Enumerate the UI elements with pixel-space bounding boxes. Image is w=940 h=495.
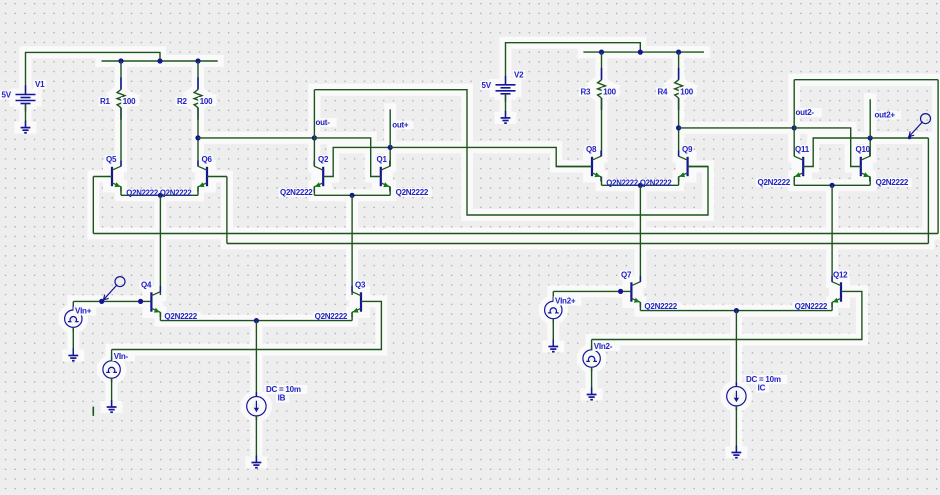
wire node out1- from R2 [198, 137, 314, 139]
svg-text:Q8: Q8 [586, 145, 597, 154]
wire latch1 emitter bus [314, 194, 390, 196]
svg-text:R2: R2 [177, 97, 188, 106]
wire latch2 top link [794, 79, 938, 81]
wire R2 to Q6 collector [197, 108, 199, 167]
wire Q11 emitter drop [793, 177, 795, 186]
svg-text:Q2N2222: Q2N2222 [644, 302, 677, 311]
wire Q1 collector [389, 147, 391, 166]
wire out1+ to Q8 base [390, 147, 592, 166]
wire IB to ground [255, 416, 257, 463]
junction rail-R1 [118, 58, 123, 63]
wire feedback line A [93, 233, 938, 235]
junction R2-out1 node [195, 135, 200, 140]
wire Q10 emitter drop [869, 177, 871, 186]
wire VIn2- top lead [591, 340, 593, 350]
junction rail-R3 [599, 50, 604, 55]
wire Q1 base to out1- [314, 138, 380, 177]
wire latch2 emitter bus [794, 184, 870, 186]
wire latch1 bus to Q3 collector [351, 195, 353, 292]
svg-text:100: 100 [680, 87, 693, 96]
wire node out2- from R4 [679, 127, 795, 129]
svg-text:100: 100 [123, 97, 136, 106]
ground 0 below VIn+ [68, 349, 78, 361]
junction Q4 base node [138, 299, 143, 304]
svg-text:Q2N2222: Q2N2222 [758, 178, 791, 187]
wire Q1 emitter drop [389, 187, 391, 196]
svg-text:Q2N2222 Q2N2222: Q2N2222 Q2N2222 [606, 179, 672, 188]
ground 0 below IC [732, 446, 742, 458]
svg-text:V2: V2 [514, 70, 524, 79]
transistor Q6 [198, 161, 207, 192]
transistor Q10 [861, 151, 870, 182]
transistor Q12 [832, 276, 841, 307]
wire Q8 emitter drop [601, 177, 603, 186]
svg-text:Q2N2222: Q2N2222 [876, 178, 909, 187]
svg-text:out2+: out2+ [875, 111, 896, 120]
svg-text:Q7: Q7 [621, 271, 632, 280]
wire R1 to Q5 collector [120, 108, 122, 167]
resistor R2 [194, 78, 202, 120]
wire Q3 emitter drop [351, 312, 353, 320]
svg-text:out-: out- [316, 118, 331, 127]
wire right supply rail [583, 51, 704, 53]
wire V1 to ground [25, 104, 27, 128]
svg-text:R1: R1 [100, 97, 111, 106]
resistor R3 [598, 68, 606, 110]
wire Q9 base lead [688, 166, 708, 168]
wire VIn2- to Q12 base [592, 291, 862, 339]
svg-text:Q2N2222 Q2N2222: Q2N2222 Q2N2222 [126, 189, 192, 198]
wire Q2 emitter drop [313, 187, 315, 196]
svg-text:Q2N2222: Q2N2222 [280, 188, 313, 197]
svg-text:Q2N2222: Q2N2222 [315, 312, 348, 321]
wire Q11 collector [793, 128, 795, 157]
source VIn2- [583, 346, 600, 372]
wire IC to ground [735, 406, 737, 453]
source VIn- [103, 357, 120, 383]
wire out2- stub [793, 80, 795, 128]
svg-text:Q12: Q12 [833, 271, 848, 280]
svg-text:IB: IB [278, 394, 286, 403]
transistor Q1 [381, 161, 390, 192]
wire VIn2+ to Q7 base [553, 290, 631, 292]
wire VIn2+ top lead [552, 291, 554, 301]
svg-text:R4: R4 [658, 87, 669, 96]
wire Q5-Q6 emitter bus [121, 194, 198, 196]
probe marker 2 [909, 114, 931, 137]
svg-text:VIn2+: VIn2+ [555, 297, 576, 306]
wire feedback A riser [937, 80, 939, 234]
wire VIn2+ bottom lead [552, 319, 554, 347]
label R2 value [198, 97, 216, 106]
resistor R4 [675, 68, 683, 110]
transistor Q3 [352, 286, 361, 317]
junction rail-R2 [195, 58, 200, 63]
junction out1- node [312, 135, 317, 140]
svg-text:Q9: Q9 [682, 145, 693, 154]
wire VIn2- bottom lead [591, 367, 593, 394]
junction emitter bus 1 [158, 193, 163, 198]
wire Q3 collector [351, 292, 353, 295]
svg-text:Q4: Q4 [141, 281, 152, 290]
wire VIn- to Q3 base [112, 301, 382, 349]
junction rail-feed [157, 58, 162, 63]
wire latch2 bus to Q12 collector [831, 185, 833, 282]
label R3 value [602, 87, 620, 96]
svg-text:Q2N2222: Q2N2222 [164, 312, 197, 321]
junction out1+ node [388, 145, 393, 150]
svg-text:Q10: Q10 [856, 145, 871, 154]
wire Q12 emitter drop [831, 302, 833, 310]
wire R4 upper lead [678, 52, 680, 80]
transistor Q5 [112, 161, 121, 192]
wire VIn- bottom lead [111, 378, 113, 407]
wire Q5 base feedback drop [92, 177, 94, 234]
wire latch1 top link [314, 90, 708, 215]
label VIn2- [592, 342, 620, 351]
svg-text:VIn2-: VIn2- [594, 342, 613, 351]
wire Q7 emitter drop [639, 302, 641, 310]
junction out2- node [792, 125, 797, 130]
wire feedback B riser [927, 138, 929, 244]
wire VIn+ to Q4 base [73, 300, 151, 302]
svg-text:5V: 5V [2, 91, 12, 100]
svg-text:Q2: Q2 [318, 155, 329, 164]
wire Q2 base to out1+ [323, 147, 390, 176]
wire V2 to rail [506, 43, 641, 85]
svg-text:100: 100 [603, 87, 616, 96]
junction rail-R4 [676, 50, 681, 55]
junction bus2-IB [254, 318, 259, 323]
ground 0 below V1 [21, 121, 31, 133]
wire Q11 base to out2+ [803, 138, 870, 167]
svg-text:Q2N2222: Q2N2222 [795, 302, 828, 311]
current source IC [727, 382, 746, 410]
svg-text:V1: V1 [35, 80, 45, 89]
source VIn+ [65, 306, 82, 332]
battery V2 [496, 76, 516, 102]
label VIn- [112, 352, 135, 361]
svg-text:IC: IC [758, 384, 766, 393]
wire R3 to Q8 collector [601, 98, 603, 157]
wire R1 upper lead [120, 61, 122, 90]
wire VIn- top lead [111, 350, 113, 361]
label R4 value [679, 87, 697, 96]
wire out1- stub [313, 90, 315, 138]
transistor Q11 [794, 151, 803, 182]
wire Q10 collector [869, 138, 871, 157]
wire Q5 emitter drop [120, 187, 122, 196]
wire feedback line B [227, 243, 929, 245]
svg-text:VIn-: VIn- [114, 352, 129, 361]
svg-text:Q2N2222: Q2N2222 [396, 188, 429, 197]
wire out2+ stub [869, 99, 871, 138]
ground 0 below IB [252, 456, 262, 468]
ground 0 below VIn2- [587, 388, 597, 400]
resistor R1 [117, 78, 125, 120]
battery V1 [16, 86, 36, 112]
wire bus1 to Q4 collector [159, 195, 161, 292]
junction latch1 bus [350, 193, 355, 198]
junction latch2 bus [830, 183, 835, 188]
wire Q10 base to out2- [794, 128, 861, 167]
svg-text:5V: 5V [482, 81, 492, 90]
wire Q2 collector [313, 138, 315, 167]
wire IB feed [255, 321, 257, 397]
junction out2+ node [868, 135, 873, 140]
wire V2 to ground [505, 94, 507, 118]
wire R4 to Q9 collector [678, 98, 680, 157]
text cursor [92, 407, 94, 416]
wire R2 upper lead [197, 61, 199, 90]
transistor Q4 [151, 286, 160, 317]
junction bus4-IC [734, 308, 739, 313]
wire Q5 base [93, 176, 112, 178]
label VIn2+ [554, 297, 582, 306]
transistor Q9 [679, 151, 688, 182]
svg-text:100: 100 [200, 97, 213, 106]
wire R3 upper lead [601, 52, 603, 80]
wire bus3 to Q7 collector [639, 185, 641, 282]
wire Q9 emitter drop [678, 177, 680, 186]
junction emitter bus 3 [638, 183, 643, 188]
svg-text:Q1: Q1 [377, 155, 388, 164]
wire V1 to rail [26, 52, 161, 94]
junction rail-feed2 [638, 50, 643, 55]
label VIn+ [74, 307, 97, 316]
wire left supply rail [102, 60, 218, 62]
transistor Q2 [314, 161, 323, 192]
ground 0 below VIn- [107, 400, 117, 412]
probe 2 attach dot [908, 136, 911, 139]
wire VIn+ bottom lead [72, 327, 74, 355]
current source IB [247, 392, 266, 420]
svg-text:Q6: Q6 [202, 155, 213, 164]
wire Q6 base [207, 176, 227, 178]
svg-text:out2-: out2- [796, 108, 815, 117]
wire Q8 base lead [556, 166, 592, 168]
svg-text:VIn+: VIn+ [75, 307, 92, 316]
transistor Q8 [592, 151, 601, 182]
wire IC feed [735, 311, 737, 387]
wire out2+ to feedback B [870, 137, 928, 139]
svg-text:Q5: Q5 [106, 155, 117, 164]
wire Q8-Q9 emitter bus [602, 184, 679, 186]
source VIn2+ [545, 297, 562, 323]
label R1 value [121, 97, 139, 106]
wire out1+ stub [389, 109, 391, 147]
svg-text:out+: out+ [392, 121, 409, 130]
wire Q3-Q4 emitter bus [160, 320, 352, 322]
ground 0 below VIn2+ [548, 340, 558, 352]
probe marker 1 [104, 277, 126, 300]
svg-text:Q3: Q3 [355, 281, 366, 290]
wire Q7-Q12 emitter bus [640, 310, 832, 312]
wire Q6 base feedback drop [226, 177, 228, 244]
junction probe attach [99, 299, 104, 304]
svg-text:Q11: Q11 [795, 145, 810, 154]
wire Q6 emitter drop [197, 187, 199, 196]
junction Q7 base node [618, 289, 623, 294]
junction R4-out2 node [676, 125, 681, 130]
ground 0 below V2 [501, 111, 511, 123]
svg-text:R3: R3 [581, 87, 592, 96]
wire Q4 collector [159, 292, 161, 295]
wire Q4 emitter drop [159, 312, 161, 320]
wire VIn+ top lead [72, 301, 74, 310]
transistor Q7 [631, 276, 640, 307]
